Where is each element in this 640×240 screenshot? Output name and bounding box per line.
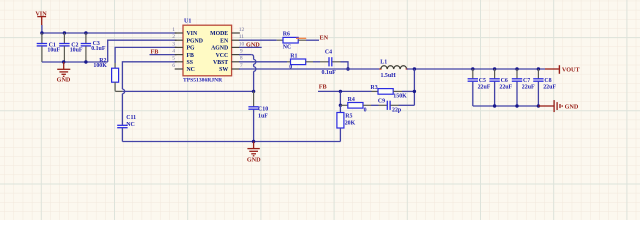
svg-text:SS: SS [187,60,193,66]
svg-text:R1: R1 [290,53,297,59]
resistor R2 [93,58,122,92]
pin 5 [172,56,183,62]
wire R2 to C10 horizontal [122,90,253,92]
svg-text:8: 8 [240,56,243,62]
wire output cap ground rail [473,105,539,107]
node VOUT at C6 [493,67,496,70]
wire C4 to SW node [332,61,340,63]
pin 10 [232,41,245,47]
pin 4 [172,49,183,55]
svg-text:22uF: 22uF [522,84,535,90]
op-amp U1 TPS51386RJNR body [183,18,232,83]
node FB junction top [339,90,342,93]
svg-text:GND: GND [57,77,71,84]
svg-text:GND: GND [247,157,261,164]
svg-text:GND: GND [246,41,260,48]
svg-text:C9: C9 [378,99,385,105]
svg-text:C6: C6 [501,78,508,84]
wire FB divider right riser [413,69,415,105]
wire VBST line [239,61,287,63]
wire SW line [239,68,381,70]
svg-text:U1: U1 [184,18,191,24]
wire AGND stub pin 10 [239,46,262,48]
pin 8 [232,56,243,62]
pin 2 [172,34,183,40]
svg-text:0.1uF: 0.1uF [322,70,337,76]
svg-text:SW: SW [219,67,228,73]
svg-text:EN: EN [320,34,329,41]
wire bottom ground rail [122,141,340,143]
wire SS vertical with hop over VCC line [122,62,176,125]
inductor L1 [379,60,407,79]
pin 6 [172,63,183,69]
capacitor C4 [322,50,337,76]
wire input ground bus [42,61,108,63]
svg-text:10uF: 10uF [70,48,83,54]
resistor R3 [371,85,415,100]
svg-text:R3: R3 [371,85,378,91]
svg-text:1: 1 [172,27,175,33]
svg-text:0: 0 [364,108,367,114]
svg-text:FB: FB [151,49,159,56]
svg-text:VIN: VIN [187,31,198,37]
power flag VOUT [545,65,581,74]
svg-text:C5: C5 [479,78,486,84]
node out rail at C8 [537,104,540,107]
node VIN junction at C3 [84,31,87,34]
wire C9 to riser [391,104,399,106]
wire R1 to C4 [313,61,320,63]
svg-text:6: 6 [172,63,175,69]
svg-text:R4: R4 [348,97,355,103]
node ground rail at C10 [252,140,255,143]
svg-text:MODE: MODE [210,31,228,37]
svg-text:12: 12 [239,27,245,33]
wire L1 to VOUT line [407,68,545,70]
resistor R1 [287,53,313,70]
svg-text:TPS51386RJNR: TPS51386RJNR [183,78,223,84]
svg-text:7: 7 [240,63,243,69]
wire EN stub [306,39,319,41]
node gnd bus at GND drop [62,60,65,63]
svg-text:GND: GND [565,103,579,110]
svg-text:22uF: 22uF [499,84,512,90]
resistor R5 [337,105,356,141]
capacitor C11 [117,115,136,142]
wire EN from pin 11 [239,39,277,41]
svg-text:4: 4 [172,49,175,55]
capacitor C8 [533,69,556,106]
svg-text:C8: C8 [544,78,551,84]
node VOUT/FB divider junction [413,67,416,70]
wire VCC down with hops over VBST and SW [239,55,256,92]
svg-text:150K: 150K [393,94,407,100]
node VIN junction at C1 [40,31,43,34]
svg-text:20K: 20K [345,121,356,127]
svg-text:R5: R5 [345,114,352,120]
node out rail at C7 [515,104,518,107]
svg-text:PGND: PGND [187,38,203,44]
pin 1 [172,27,183,33]
node VOUT at C5 [471,67,474,70]
pin 7 [232,63,243,69]
pin 12 [232,27,245,33]
node C4/SW junction [346,67,349,70]
svg-text:1uF: 1uF [258,114,268,120]
svg-text:9: 9 [240,49,243,55]
svg-text:NC: NC [283,44,292,50]
svg-text:R6: R6 [283,32,290,38]
node VCC / C10 junction [252,90,255,93]
svg-text:C4: C4 [325,50,332,56]
node VOUT at C7 [515,67,518,70]
ground GND center [247,142,261,164]
svg-text:NC: NC [126,122,135,128]
node VIN junction at C2 [63,31,66,34]
svg-text:C10: C10 [258,107,268,113]
wire PGND riser [108,40,177,62]
node VOUT at C8 [537,67,540,70]
wire VIN vertical [41,25,43,33]
svg-text:22uF: 22uF [478,84,491,90]
ground GND output (sideways) [538,100,578,112]
svg-text:2: 2 [172,34,175,40]
node R4/R5 junction [339,104,342,107]
svg-text:PG: PG [187,46,196,52]
svg-text:AGND: AGND [211,46,228,52]
power flag VIN [35,10,47,25]
ground GND input [57,62,71,84]
capacitor C7 [512,69,535,106]
resistor R6 [277,32,307,51]
pin 11 [232,34,245,40]
capacitor C10 [248,91,268,141]
wire R4 to C9 [371,104,379,106]
svg-text:0: 0 [289,65,292,71]
capacitor C6 [489,69,512,106]
svg-text:22uF: 22uF [543,84,556,90]
wire FB net [318,90,372,92]
pin names right [210,31,229,73]
svg-text:5: 5 [172,56,175,62]
capacitor C5 [468,69,491,106]
svg-text:FB: FB [187,53,195,59]
svg-text:EN: EN [220,38,229,44]
svg-text:VOUT: VOUT [562,67,581,74]
pin 3 [172,41,183,47]
svg-text:100K: 100K [93,63,107,69]
svg-text:22p: 22p [392,108,402,114]
svg-text:10uF: 10uF [47,48,60,54]
wire VIN top bus [42,32,177,34]
svg-text:0.1uF: 0.1uF [91,46,106,52]
svg-text:11: 11 [239,34,245,40]
wire FB stub at pin 4 [150,54,177,56]
svg-text:3: 3 [172,41,175,47]
svg-text:1.5uH: 1.5uH [381,73,397,79]
svg-text:C11: C11 [126,115,136,121]
node out rail at C6 [493,104,496,107]
capacitor C9 [378,99,402,114]
pin 9 [232,49,243,55]
svg-text:NC: NC [187,67,195,73]
svg-text:FB: FB [319,84,327,91]
wire FB to R4 branch [339,91,341,105]
wire PG to R2 [115,47,176,63]
pin names left [187,31,203,73]
resistor R4 [340,97,371,113]
svg-text:VBST: VBST [213,60,228,66]
capacitor C1 [37,33,61,62]
capacitor C3 [81,33,106,62]
svg-text:C7: C7 [523,78,530,84]
svg-text:L1: L1 [380,60,387,66]
node gnd bus at C3 [84,60,87,63]
svg-text:VCC: VCC [216,53,229,59]
node R3 right junction [413,90,416,93]
capacitor C2 [59,33,83,62]
svg-text:10: 10 [239,41,245,47]
